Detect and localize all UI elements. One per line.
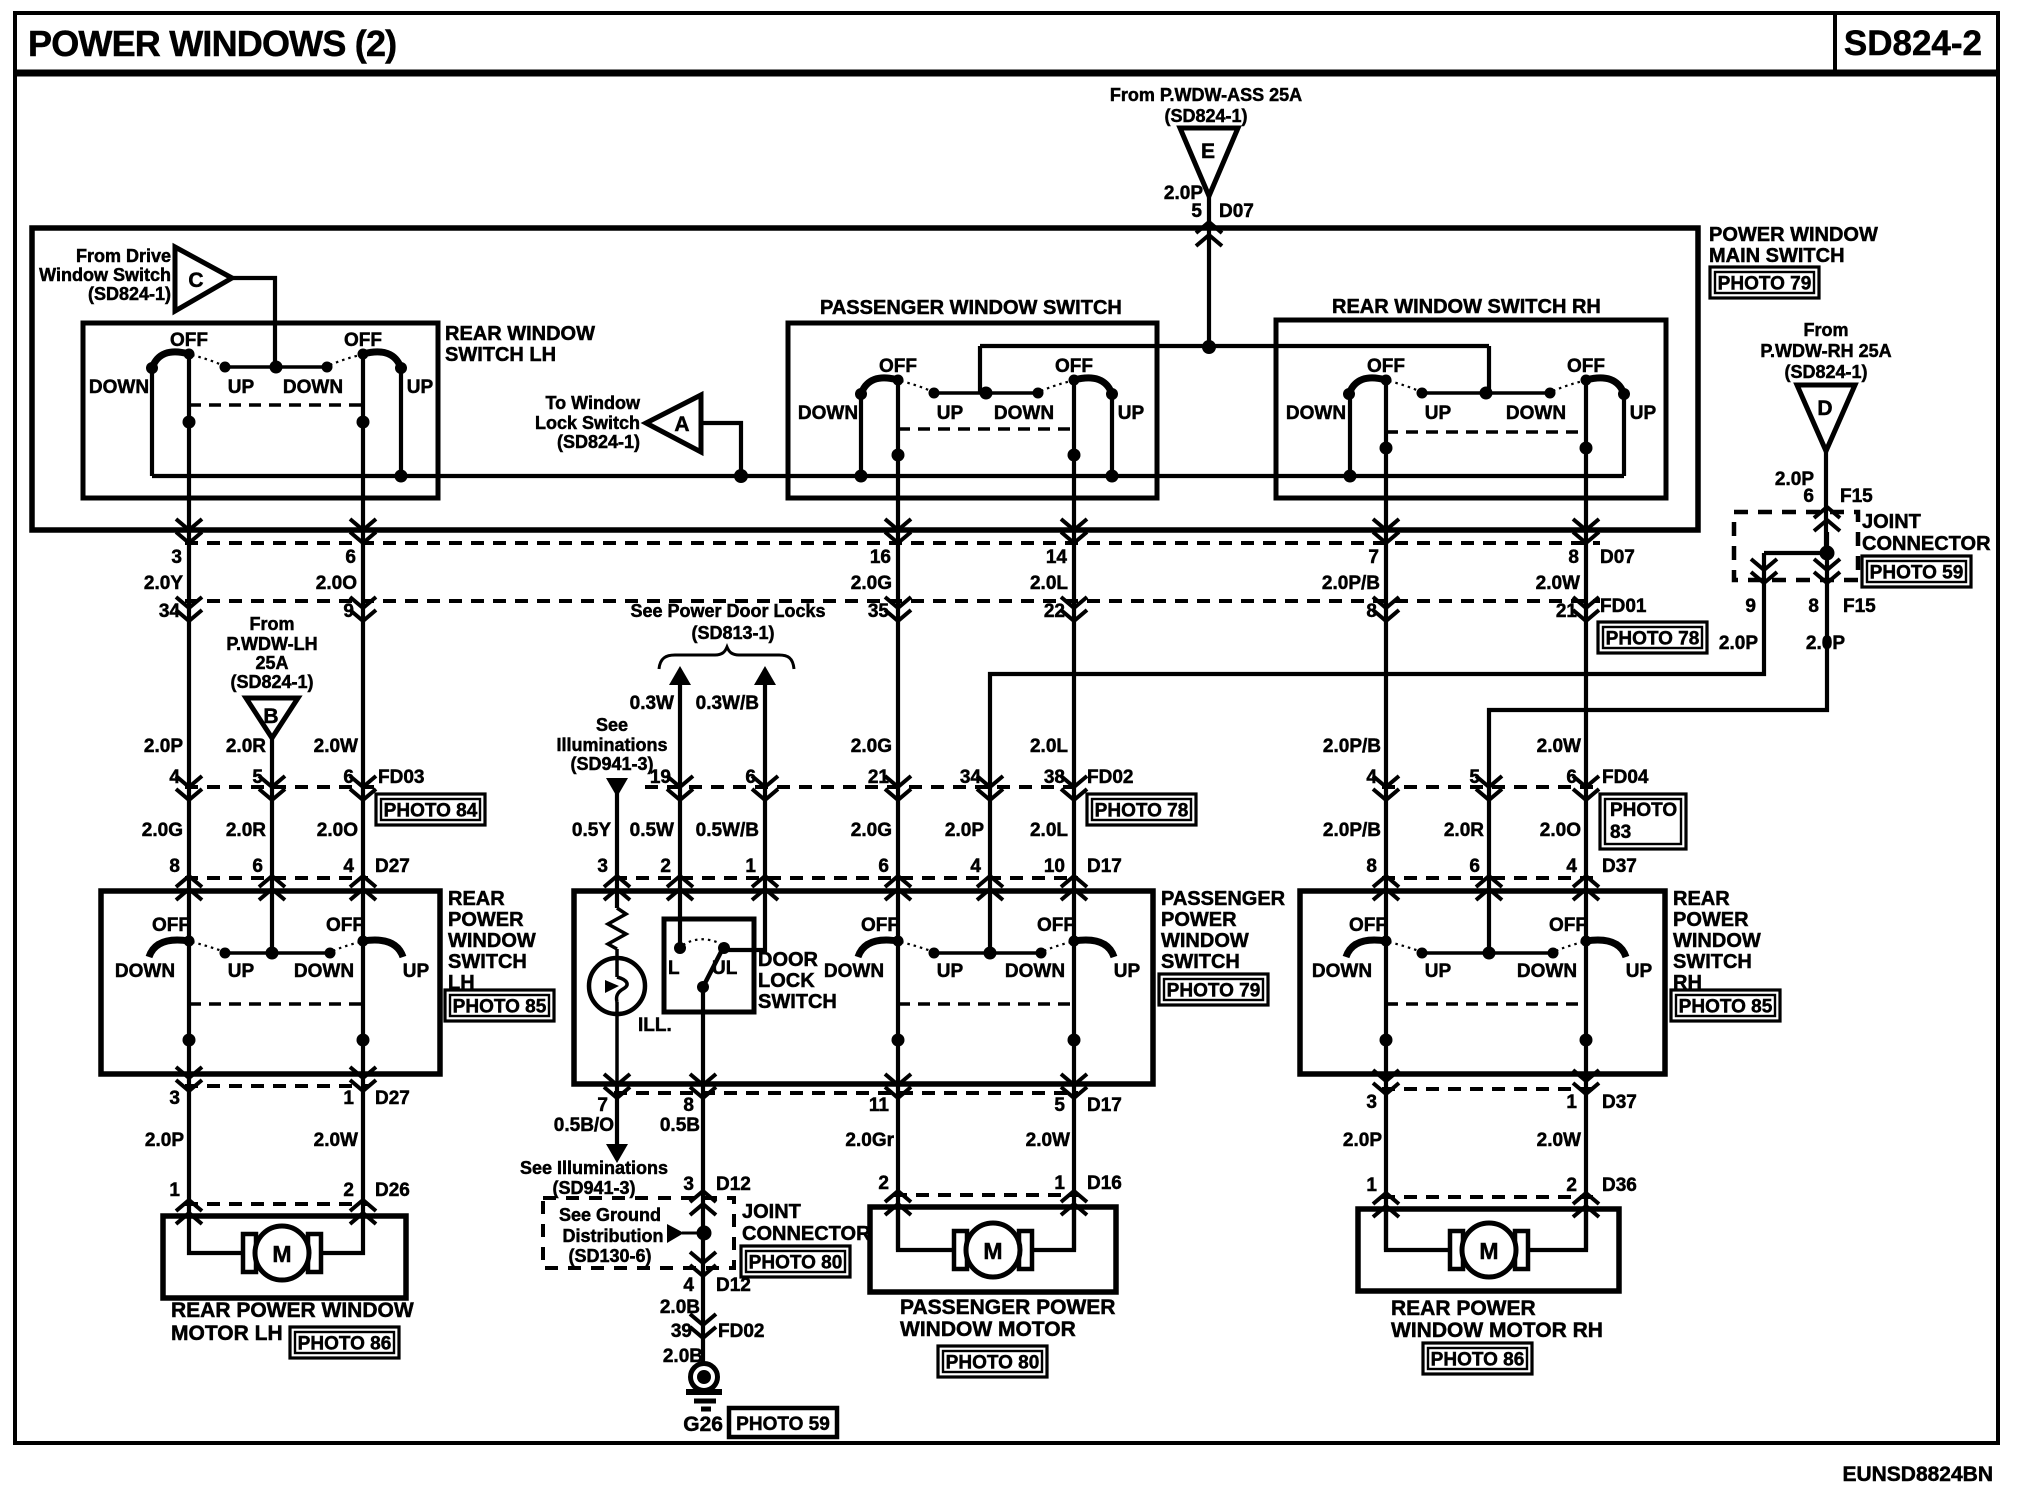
svg-text:OFF: OFF	[152, 915, 190, 936]
svg-text:OFF: OFF	[1567, 356, 1605, 377]
brace power door locks	[659, 647, 794, 669]
svg-text:SWITCH LH: SWITCH LH	[445, 344, 556, 366]
D17 pin 3 arrow	[604, 876, 630, 887]
rear window switch RH box	[1276, 320, 1666, 498]
svg-text:7: 7	[597, 1095, 608, 1116]
wire C to centre junction	[232, 278, 275, 367]
svg-text:D27: D27	[375, 856, 410, 877]
svg-text:D12: D12	[716, 1275, 751, 1296]
svg-text:PHOTO 86: PHOTO 86	[298, 1334, 392, 1355]
svg-text:5: 5	[1054, 1095, 1065, 1116]
svg-text:SWITCH: SWITCH	[758, 991, 837, 1013]
svg-text:6: 6	[1803, 486, 1814, 507]
svg-text:PHOTO 79: PHOTO 79	[1718, 274, 1812, 295]
dot passenger off-up wire	[1068, 449, 1081, 462]
svg-text:3: 3	[683, 1174, 694, 1195]
svg-text:REAR POWER WINDOW: REAR POWER WINDOW	[171, 1299, 414, 1322]
connector row D27 dashed line	[185, 876, 368, 880]
switch contacts passenger window switch	[934, 391, 1038, 395]
svg-text:0.5W: 0.5W	[630, 820, 674, 841]
svg-text:(SD813-1): (SD813-1)	[691, 623, 774, 643]
D36 pin 1 arrow	[1373, 1193, 1399, 1204]
svg-text:2.0P: 2.0P	[1343, 1130, 1382, 1151]
wire 0.3W (to door locks)	[678, 684, 682, 948]
photo 59 box (G26)	[729, 1408, 837, 1437]
svg-text:6: 6	[1566, 767, 1577, 788]
wire motor RH left	[1386, 1209, 1451, 1250]
svg-text:PHOTO 79: PHOTO 79	[1167, 981, 1261, 1002]
svg-text:2.0W: 2.0W	[1537, 1130, 1581, 1151]
svg-text:1: 1	[1366, 1175, 1377, 1196]
svg-text:OFF: OFF	[344, 330, 382, 351]
svg-text:4: 4	[343, 856, 354, 877]
D17-2 pin 11 arrow	[885, 1074, 911, 1085]
rear power window motor RH box	[1358, 1209, 1619, 1291]
F15 pin 8 arrow	[1814, 559, 1840, 570]
svg-text:8: 8	[1366, 601, 1377, 622]
svg-text:C: C	[188, 269, 203, 292]
D27 pin 6 arrow	[259, 876, 285, 887]
svg-text:2: 2	[660, 856, 671, 877]
svg-text:See Ground: See Ground	[559, 1205, 661, 1225]
wire LH down contact to bus	[150, 368, 154, 476]
svg-text:2.0P: 2.0P	[945, 820, 984, 841]
dashed link RH	[1386, 430, 1586, 434]
photo 86 box (motor LH)	[290, 1327, 399, 1358]
svg-text:See: See	[596, 715, 628, 735]
svg-text:UP: UP	[1114, 961, 1141, 982]
svg-text:ILL.: ILL.	[638, 1015, 672, 1036]
svg-text:D17: D17	[1087, 856, 1122, 877]
svg-text:D17: D17	[1087, 1095, 1122, 1116]
svg-text:MAIN SWITCH: MAIN SWITCH	[1709, 245, 1845, 267]
door lock contact UL	[718, 942, 730, 954]
svg-text:UP: UP	[1118, 403, 1145, 424]
svg-text:REAR: REAR	[448, 888, 505, 910]
photo 85 box (switch RH)	[1671, 990, 1780, 1021]
dot RH off-down wire	[1380, 442, 1393, 455]
svg-text:2.0L: 2.0L	[1030, 573, 1068, 594]
wire passenger off2 to pin5	[1072, 941, 1076, 1250]
FD01 pin 21 arrow	[1573, 597, 1599, 608]
D07 pin 6 arrow	[350, 519, 376, 530]
svg-text:From P.WDW-ASS 25A: From P.WDW-ASS 25A	[1110, 85, 1302, 105]
svg-text:3: 3	[169, 1088, 180, 1109]
svg-text:LOCK: LOCK	[758, 970, 815, 992]
dot RH off-up wire	[1580, 442, 1593, 455]
wire motor LH left	[189, 1216, 244, 1253]
wire RH pin7 (2.0P/B)	[1384, 380, 1388, 941]
FD01 pin 34 arrow	[176, 597, 202, 608]
svg-text:UP: UP	[228, 377, 255, 398]
connector row FD01 dashed line	[185, 599, 1600, 603]
FD03 pin 4 arrow	[176, 776, 202, 787]
svg-text:PHOTO 78: PHOTO 78	[1606, 629, 1700, 650]
svg-text:39: 39	[671, 1321, 692, 1342]
svg-text:2.0G: 2.0G	[851, 820, 892, 841]
svg-text:EUNSD8824BN: EUNSD8824BN	[1842, 1463, 1993, 1486]
svg-text:CONNECTOR: CONNECTOR	[1862, 533, 1991, 555]
svg-text:From: From	[1804, 320, 1849, 340]
wire B to lower LH centre	[270, 735, 274, 953]
photo 86 box (motor RH)	[1423, 1343, 1532, 1374]
D12 pin 4 arrow	[690, 1252, 716, 1263]
svg-text:WINDOW MOTOR RH: WINDOW MOTOR RH	[1391, 1319, 1603, 1342]
wire LH off2 to pin1	[361, 941, 365, 1216]
svg-text:1: 1	[343, 1088, 354, 1109]
svg-text:(SD130-6): (SD130-6)	[568, 1246, 651, 1266]
svg-text:D36: D36	[1602, 1175, 1637, 1196]
svg-text:FD04: FD04	[1602, 767, 1649, 788]
svg-text:DOWN: DOWN	[824, 961, 884, 982]
svg-text:(SD824-1): (SD824-1)	[557, 432, 640, 452]
svg-text:8: 8	[1808, 596, 1819, 617]
svg-text:UP: UP	[403, 961, 430, 982]
pin 6 F15 arrow	[1814, 507, 1840, 518]
switch contacts rear power window switch LH	[225, 951, 330, 955]
svg-text:2.0P: 2.0P	[145, 1130, 184, 1151]
D37 pin 1 arrow	[1573, 1070, 1599, 1081]
svg-text:POWER WINDOW: POWER WINDOW	[1709, 224, 1878, 246]
svg-text:E: E	[1201, 140, 1215, 163]
svg-text:REAR WINDOW: REAR WINDOW	[445, 323, 595, 345]
svg-text:2.0W: 2.0W	[1026, 1130, 1070, 1151]
connector row FD04 dashed line	[1382, 785, 1600, 789]
svg-text:DOWN: DOWN	[798, 403, 858, 424]
connector row D37-2 dashed line	[1382, 1087, 1600, 1091]
dashed link passenger	[898, 427, 1074, 431]
svg-text:D07: D07	[1600, 547, 1635, 568]
svg-text:2.0O: 2.0O	[316, 573, 357, 594]
svg-text:8: 8	[1366, 856, 1377, 877]
svg-text:(SD941-3): (SD941-3)	[570, 754, 653, 774]
svg-text:OFF: OFF	[1055, 356, 1093, 377]
wire RH off2 to pin1	[1584, 941, 1588, 1250]
svg-text:83: 83	[1610, 822, 1631, 843]
svg-text:2.0L: 2.0L	[1030, 736, 1068, 757]
svg-text:PASSENGER: PASSENGER	[1161, 888, 1286, 910]
F15 pin 9 arrow	[1751, 559, 1777, 570]
svg-text:1: 1	[1566, 1092, 1577, 1113]
svg-text:POWER: POWER	[1673, 909, 1749, 931]
svg-text:FD01: FD01	[1600, 596, 1647, 617]
svg-text:PHOTO 59: PHOTO 59	[1870, 563, 1964, 584]
wire passenger up contact to bus	[1110, 394, 1114, 476]
svg-text:5: 5	[1191, 201, 1202, 222]
connector row D07 dashed line	[185, 541, 1600, 545]
dashed link LH	[189, 403, 363, 407]
connector D triangle	[1797, 385, 1855, 451]
wire passenger down contact to bus	[859, 394, 863, 476]
FD02 pin 21 arrow	[885, 776, 911, 787]
D17 pin 1 arrow	[752, 876, 778, 887]
wire LH off1 to pin3	[187, 941, 191, 1216]
svg-text:38: 38	[1044, 767, 1065, 788]
connector row D16 dashed line	[894, 1193, 1078, 1197]
svg-text:PHOTO 80: PHOTO 80	[946, 1353, 1040, 1374]
D07 pin 7 arrow	[1373, 519, 1399, 530]
svg-text:PHOTO 86: PHOTO 86	[1431, 1350, 1525, 1371]
svg-text:9: 9	[1745, 596, 1756, 617]
D17 pin 10 arrow	[1061, 876, 1087, 887]
wire RH pin8 (2.0W)	[1584, 380, 1588, 941]
svg-text:PHOTO 78: PHOTO 78	[1095, 801, 1189, 822]
D17-2 pin 8 arrow	[690, 1074, 716, 1085]
svg-text:DOWN: DOWN	[115, 961, 175, 982]
ground distribution pointer	[667, 1224, 684, 1243]
D26 pin 1 arrow	[176, 1200, 202, 1211]
svg-text:10: 10	[1044, 856, 1065, 877]
svg-text:2.0W: 2.0W	[314, 1130, 358, 1151]
svg-text:UP: UP	[1630, 403, 1657, 424]
svg-text:DOWN: DOWN	[1005, 961, 1065, 982]
svg-text:34: 34	[159, 601, 181, 622]
svg-text:MOTOR LH: MOTOR LH	[171, 1322, 283, 1345]
svg-text:2.0P/B: 2.0P/B	[1323, 736, 1381, 757]
svg-text:M: M	[983, 1238, 1002, 1264]
svg-text:2.0R: 2.0R	[1444, 820, 1484, 841]
FD04 pin 4 arrow	[1373, 776, 1399, 787]
passenger window switch box	[788, 323, 1157, 498]
svg-text:2.0G: 2.0G	[851, 573, 892, 594]
svg-text:POWER WINDOWS (2): POWER WINDOWS (2)	[28, 23, 396, 64]
FD01 pin 8 arrow	[1373, 597, 1399, 608]
svg-text:SWITCH: SWITCH	[1673, 951, 1752, 973]
see ground distribution box	[543, 1198, 734, 1268]
svg-text:0.3W: 0.3W	[630, 693, 674, 714]
svg-text:8: 8	[683, 1095, 694, 1116]
svg-text:25A: 25A	[255, 653, 288, 673]
connector A triangle	[646, 395, 701, 452]
svg-text:(SD824-1): (SD824-1)	[1784, 362, 1867, 382]
svg-text:From Drive: From Drive	[76, 246, 171, 266]
svg-text:DOWN: DOWN	[1312, 961, 1372, 982]
photo 78 box (FD01)	[1598, 622, 1707, 653]
motor M rear LH	[243, 1234, 256, 1272]
connector B triangle	[246, 698, 298, 738]
svg-text:REAR POWER: REAR POWER	[1391, 1297, 1536, 1320]
svg-text:19: 19	[650, 767, 671, 788]
svg-text:REAR WINDOW SWITCH RH: REAR WINDOW SWITCH RH	[1332, 296, 1601, 318]
svg-text:OFF: OFF	[170, 330, 208, 351]
svg-text:OFF: OFF	[326, 915, 364, 936]
switch contacts rear window switch LH	[225, 365, 327, 369]
svg-text:0.5B/O: 0.5B/O	[554, 1115, 614, 1136]
connector E triangle	[1180, 128, 1238, 196]
wire RH centre down-link	[1487, 346, 1491, 393]
D17 pin 4 arrow	[977, 876, 1003, 887]
photo 79 box (main switch)	[1710, 267, 1819, 298]
photo 85 box (switch LH)	[445, 990, 554, 1021]
svg-text:2.0R: 2.0R	[226, 820, 266, 841]
svg-text:D12: D12	[716, 1174, 751, 1195]
wire ILL feed down-arrow	[606, 778, 628, 797]
svg-text:FD02: FD02	[718, 1321, 764, 1342]
svg-text:POWER: POWER	[448, 909, 524, 931]
D17-2 pin 7 arrow	[604, 1074, 630, 1085]
dot LH off-down wire	[183, 416, 196, 429]
svg-text:7: 7	[1368, 547, 1379, 568]
wire LH pin3 (2.0Y/2.0P/2.0G)	[187, 354, 191, 941]
connector row D37 dashed line	[1382, 876, 1600, 880]
wire LH up contact to bus	[399, 368, 403, 476]
wire joint-9 to passenger pin4	[990, 553, 1764, 953]
switch contacts passenger power window switch	[934, 951, 1041, 955]
svg-text:See Illuminations: See Illuminations	[520, 1158, 668, 1178]
rear power window switch LH box	[101, 891, 440, 1074]
svg-text:D27: D27	[375, 1088, 410, 1109]
svg-text:DOWN: DOWN	[283, 377, 343, 398]
svg-text:1: 1	[169, 1180, 180, 1201]
FD01 pin 22 arrow	[1061, 597, 1087, 608]
svg-text:0.5W/B: 0.5W/B	[696, 820, 759, 841]
svg-text:4: 4	[970, 856, 981, 877]
svg-text:From: From	[250, 614, 295, 634]
D07 pin 14 arrow	[1061, 519, 1087, 530]
svg-text:(SD824-1): (SD824-1)	[88, 284, 171, 304]
svg-text:B: B	[263, 705, 278, 728]
D17 pin 6 arrow	[885, 876, 911, 887]
svg-text:DOWN: DOWN	[1286, 403, 1346, 424]
svg-text:P.WDW-RH 25A: P.WDW-RH 25A	[1760, 341, 1891, 361]
door lock contact L	[674, 942, 686, 954]
FD02 pin 19 arrow	[667, 776, 693, 787]
svg-text:2.0W: 2.0W	[1537, 736, 1581, 757]
svg-text:9: 9	[343, 601, 354, 622]
D37 pin 4 arrow	[1573, 876, 1599, 887]
D12 pin 3 arrow	[690, 1191, 716, 1202]
svg-text:P.WDW-LH: P.WDW-LH	[226, 634, 317, 654]
svg-text:JOINT: JOINT	[742, 1201, 801, 1223]
svg-text:(SD824-1): (SD824-1)	[1164, 106, 1247, 126]
svg-text:2.0Gr: 2.0Gr	[845, 1130, 894, 1151]
svg-text:6: 6	[878, 856, 889, 877]
svg-text:PHOTO 85: PHOTO 85	[453, 997, 547, 1018]
svg-text:SWITCH: SWITCH	[1161, 951, 1240, 973]
joint connector box (F15)	[1734, 512, 1858, 580]
svg-text:G26: G26	[683, 1413, 723, 1436]
D27 pin 8 arrow	[176, 876, 202, 887]
wire passenger pin16 (2.0G)	[896, 380, 900, 941]
svg-text:OFF: OFF	[1549, 915, 1587, 936]
svg-text:See Power Door Locks: See Power Door Locks	[630, 601, 825, 621]
connector row D17 dashed line	[614, 876, 1078, 880]
svg-text:0.5B: 0.5B	[660, 1115, 700, 1136]
D27 pin 3 arrow	[176, 1067, 202, 1078]
svg-text:Lock Switch: Lock Switch	[535, 413, 640, 433]
svg-text:2.0G: 2.0G	[142, 820, 183, 841]
ground G26 symbol	[691, 1364, 718, 1391]
wire motor RH right	[1527, 1209, 1586, 1250]
svg-text:FD03: FD03	[378, 767, 424, 788]
wire door lock pivot to pin8	[701, 987, 705, 1363]
wire passenger centre up-link	[978, 346, 982, 393]
switch contacts rear power window switch RH	[1422, 951, 1553, 955]
svg-text:D37: D37	[1602, 1092, 1637, 1113]
svg-text:1: 1	[745, 856, 756, 877]
D26 pin 2 arrow	[350, 1200, 376, 1211]
connector row FD02 dashed line	[645, 785, 1085, 789]
svg-text:16: 16	[870, 547, 891, 568]
svg-text:6: 6	[745, 767, 756, 788]
wire passenger pin14 (2.0L)	[1072, 380, 1076, 941]
wire joint branch	[1764, 551, 1827, 555]
svg-text:PHOTO 85: PHOTO 85	[1679, 997, 1773, 1018]
door lock dotted arc	[683, 939, 721, 945]
D17 pin 2 arrow	[667, 876, 693, 887]
svg-text:CONNECTOR: CONNECTOR	[742, 1223, 871, 1245]
door lock lever	[703, 950, 722, 987]
svg-text:DOWN: DOWN	[994, 403, 1054, 424]
svg-text:M: M	[1479, 1238, 1498, 1264]
FD03 pin 5 arrow	[259, 776, 285, 787]
switch contacts rear window switch RH	[1422, 391, 1550, 395]
svg-text:3: 3	[1366, 1092, 1377, 1113]
svg-text:5: 5	[1469, 767, 1480, 788]
svg-text:6: 6	[343, 767, 354, 788]
wire motor passenger left	[898, 1207, 955, 1250]
rear window switch LH box	[83, 323, 438, 498]
wire motor passenger right	[1031, 1207, 1074, 1250]
svg-text:WINDOW: WINDOW	[448, 930, 536, 952]
svg-text:D37: D37	[1602, 856, 1637, 877]
wire ILL exit	[615, 1084, 619, 1146]
svg-text:1: 1	[1054, 1173, 1065, 1194]
svg-text:F15: F15	[1843, 596, 1876, 617]
svg-text:34: 34	[960, 767, 982, 788]
door lock switch box	[664, 919, 754, 1012]
svg-text:WINDOW MOTOR: WINDOW MOTOR	[900, 1318, 1076, 1341]
FD01 pin 35 arrow	[885, 597, 911, 608]
D37 pin 3 arrow	[1373, 1070, 1399, 1081]
svg-text:To Window: To Window	[546, 393, 641, 413]
D27 pin 4 arrow	[350, 876, 376, 887]
wire RH down contact to bus	[1348, 394, 1352, 476]
svg-text:D26: D26	[375, 1180, 410, 1201]
svg-text:22: 22	[1044, 601, 1065, 622]
svg-text:POWER: POWER	[1161, 909, 1237, 931]
svg-text:D07: D07	[1219, 201, 1254, 222]
connector row D26 dashed line	[185, 1202, 368, 1206]
svg-text:2.0G: 2.0G	[851, 736, 892, 757]
door lock pivot	[697, 981, 709, 993]
svg-text:4: 4	[1366, 767, 1377, 788]
wire RH up contact to bus	[1622, 394, 1626, 476]
photo 80 box (motor passenger)	[938, 1346, 1047, 1377]
svg-text:0.5Y: 0.5Y	[572, 820, 611, 841]
svg-text:PASSENGER WINDOW SWITCH: PASSENGER WINDOW SWITCH	[820, 297, 1122, 319]
svg-text:2.0P/B: 2.0P/B	[1322, 573, 1380, 594]
svg-text:6: 6	[252, 856, 263, 877]
svg-text:UP: UP	[407, 377, 434, 398]
svg-text:8: 8	[169, 856, 180, 877]
D16 pin 1 arrow	[1061, 1191, 1087, 1202]
motor M rear RH	[1450, 1231, 1463, 1269]
svg-text:F15: F15	[1840, 486, 1873, 507]
wire joint-8 to RH pin6	[1489, 532, 1827, 953]
FD03 pin 6 arrow	[350, 776, 376, 787]
svg-text:2.0R: 2.0R	[226, 736, 266, 757]
svg-text:11: 11	[869, 1095, 890, 1116]
D16 pin 2 arrow	[885, 1191, 911, 1202]
svg-text:2.0O: 2.0O	[317, 820, 358, 841]
svg-text:WINDOW: WINDOW	[1161, 930, 1249, 952]
svg-text:4: 4	[1566, 856, 1577, 877]
svg-text:DOWN: DOWN	[89, 377, 149, 398]
svg-text:2: 2	[1566, 1175, 1577, 1196]
FD01 pin 9 arrow	[350, 597, 376, 608]
FD04 pin 6 arrow	[1573, 776, 1599, 787]
